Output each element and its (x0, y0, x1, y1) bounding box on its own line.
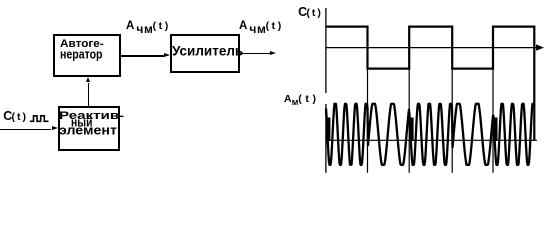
axis: C(t) plot vertical axis (325, 8, 327, 93)
label A_чм(t) over U3 output (239, 20, 284, 33)
label A_чм(t) over wire U1-U3 (126, 20, 171, 33)
label C(t) top plot (298, 6, 323, 20)
waveform: A_м(t) FM sine (326, 104, 534, 165)
arrowhead into U2 (52, 126, 58, 130)
arrowhead into U3 (164, 53, 170, 57)
arrowhead U3 output (270, 51, 276, 55)
label A_м(t) bottom plot (284, 94, 320, 105)
gridline t4 (492, 69, 494, 173)
label U1 text line2 (60, 49, 103, 62)
label U2 text line2 (71, 117, 92, 130)
block U3 Усилитель (amplifier) (170, 34, 240, 74)
axis: A_м(t) plot vertical axis (325, 104, 327, 173)
label U1 text line1 (60, 39, 104, 50)
ink blob burst 1 start (327, 118, 331, 142)
wire: U1 output to U3 input (121, 55, 164, 56)
axis: A_м(t) plot horizontal line (326, 139, 537, 141)
label U2 text line3 (59, 125, 117, 138)
label C(t) input (3, 110, 28, 124)
arrowhead: C(t) axis (536, 44, 544, 50)
label U3 text (172, 45, 243, 58)
waveform: C(t) square wave (326, 27, 534, 140)
gridline t1 (367, 69, 369, 173)
arrowhead into U1 bottom (86, 77, 90, 82)
ink blob burst 3 start (494, 118, 498, 142)
label U2 text line1 (59, 111, 124, 122)
ink blob burst 2 start (410, 118, 414, 142)
square pulse glyph after C(t) label (30, 116, 49, 122)
axis: C(t) plot horizontal axis (326, 47, 538, 49)
wire: U3 output (239, 53, 270, 54)
gridline t2 (408, 69, 410, 173)
gridline t3 (451, 69, 453, 173)
wire: input C(t) into U2 (0, 129, 51, 130)
wire: U2 to U1 vertical (88, 83, 89, 107)
block U2 Реактивный элемент (reactive element) (58, 106, 120, 151)
block U1 Автогенератор (autogenerator) (53, 34, 121, 77)
